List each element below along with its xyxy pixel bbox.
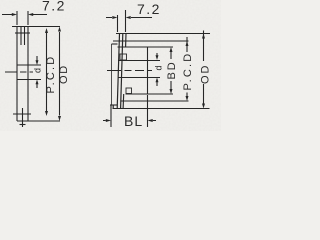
dimension BD right: arrowheads: [170, 47, 173, 94]
right set screw mark top: [120, 54, 127, 60]
dimension 7.2 left: dim line: [2, 14, 47, 16]
right hub top / BD extension: [118, 46, 174, 48]
left plate right edge: [27, 27, 29, 122]
left tooth root line bottom: [13, 113, 31, 115]
right tooth root top / P.C.D extension: [113, 40, 189, 42]
right plate bottom edge / OD bottom extension: [113, 108, 210, 110]
dimension d left: dim line segments: [36, 56, 38, 88]
scan grain: [0, 0, 221, 131]
dimension 7.2 left: extension lines: [17, 11, 28, 25]
right boss corner tick bottom: [110, 104, 118, 106]
right horizontal centerline (dash-dot): [107, 70, 152, 72]
dimension BL: dim line tails: [103, 120, 156, 122]
svg-text:d: d: [33, 68, 43, 73]
svg-text:7.2: 7.2: [42, 0, 66, 14]
dimension d right: dim line segments: [156, 53, 158, 86]
dimension 7.2 right: dim line: [106, 17, 152, 19]
right plate top edge / OD top extension: [116, 33, 210, 35]
dimension P.C.D right: dim line: [186, 37, 188, 96]
right tooth chamfer line top: [121, 34, 123, 109]
dimension BL: extension lines: [111, 95, 148, 127]
left plate top edge / OD top extension: [12, 26, 60, 28]
dimension P.C.D left: arrowheads: [45, 28, 48, 116]
left bottom center line: [22, 108, 24, 127]
svg-text:P.C.D: P.C.D: [45, 55, 57, 94]
dimension d left: arrowheads: [36, 60, 39, 84]
left bottom tick: [20, 124, 26, 126]
right boss step bottom vertical: [112, 105, 114, 109]
right bore bottom (hidden): [118, 77, 160, 79]
right boss face left: [111, 44, 113, 105]
dimension 7.2 right: arrowheads: [112, 16, 130, 19]
dimension P.C.D right: arrowheads: [186, 41, 189, 101]
svg-text:BD: BD: [166, 60, 178, 79]
left plate bottom edge / OD bottom extension: [17, 120, 60, 122]
dimension 7.2 right: extension lines: [118, 10, 126, 32]
left tooth chamfer line 2: [24, 27, 26, 46]
right boss corner tick top: [112, 43, 118, 45]
dimension OD right: arrowheads: [202, 34, 205, 109]
left tooth chamfer line 1: [20, 27, 22, 46]
dimension OD left: dim line: [59, 32, 61, 116]
left horizontal centerline (dash-dot): [5, 71, 33, 73]
svg-text:P.C.D: P.C.D: [182, 52, 194, 91]
dimension BL: arrowheads: [106, 119, 153, 122]
right plate left edge: [117, 34, 119, 109]
svg-text:7.2: 7.2: [137, 1, 161, 17]
dimension OD right: dim line: [203, 31, 205, 104]
right plate right edge: [123, 34, 126, 109]
svg-text:OD: OD: [58, 64, 70, 84]
right hub end face: [147, 47, 149, 94]
svg-text:d: d: [154, 65, 164, 70]
left bore bottom line: [17, 79, 41, 81]
dimension OD left: arrowheads: [58, 27, 61, 122]
svg-text:BL: BL: [124, 113, 143, 129]
dimension d right: arrowheads: [156, 55, 159, 82]
left plate left edge: [16, 27, 18, 122]
right set screw mark bottom: [126, 88, 132, 94]
right bore top (hidden): [118, 60, 160, 62]
left bore top line: [17, 64, 41, 66]
right hub bottom / BD extension: [126, 93, 174, 95]
right tooth root bottom / P.C.D extension: [121, 100, 189, 102]
dimension P.C.D left: dim line: [46, 33, 48, 111]
svg-text:OD: OD: [200, 64, 212, 85]
left tooth root line top: [15, 32, 30, 34]
dimension BD right: dim line: [170, 52, 172, 89]
dimension 7.2 left: arrowheads: [12, 13, 33, 16]
